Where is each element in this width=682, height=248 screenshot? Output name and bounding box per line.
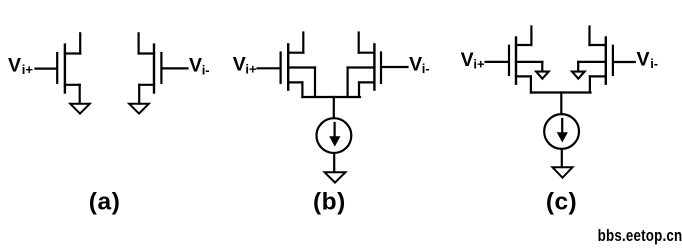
svg-text:i-: i- bbox=[202, 62, 210, 77]
svg-text:bbs.eetop.cn: bbs.eetop.cn bbox=[598, 227, 682, 246]
svg-text:i+: i+ bbox=[245, 61, 257, 76]
svg-text:V: V bbox=[409, 53, 422, 75]
svg-text:(a): (a) bbox=[89, 188, 121, 215]
svg-text:V: V bbox=[8, 54, 21, 76]
svg-text:(b): (b) bbox=[313, 188, 346, 215]
svg-text:i+: i+ bbox=[22, 62, 34, 77]
svg-text:i-: i- bbox=[422, 61, 430, 76]
svg-text:V: V bbox=[233, 54, 246, 76]
svg-text:V: V bbox=[461, 49, 474, 71]
svg-text:i-: i- bbox=[650, 56, 658, 71]
svg-text:(c): (c) bbox=[546, 188, 577, 215]
svg-text:V: V bbox=[189, 55, 202, 77]
svg-text:V: V bbox=[637, 49, 650, 71]
svg-text:i+: i+ bbox=[473, 57, 485, 72]
